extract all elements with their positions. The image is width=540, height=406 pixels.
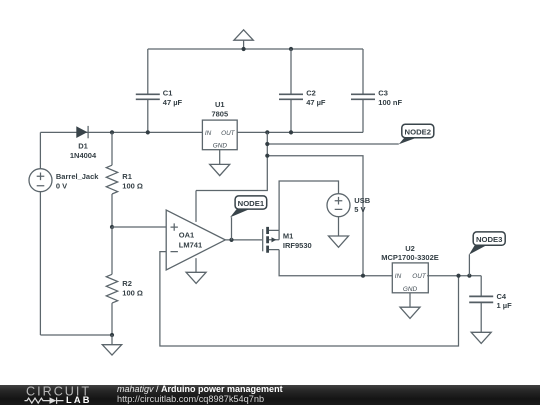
resistor R1 [106, 165, 117, 194]
power flag (up triangle) on top rail [234, 30, 253, 49]
svg-text:M1: M1 [283, 232, 293, 241]
op-amp OA1 [166, 210, 225, 270]
svg-text:100 nF: 100 nF [378, 98, 402, 107]
svg-text:R1: R1 [122, 172, 132, 181]
junction: R1 / op-amp + input [110, 225, 114, 229]
ground (bottom left) [102, 335, 121, 355]
capacitor C2 [279, 94, 303, 99]
junction: out rail / C2 [289, 130, 293, 134]
svg-text:NODE3: NODE3 [476, 235, 503, 244]
svg-text:47 µF: 47 µF [163, 98, 183, 107]
wire: USB negative lead [338, 217, 340, 236]
junction: top rail / C2 [289, 47, 293, 51]
svg-text:1 µF: 1 µF [497, 301, 513, 310]
junction: input rail / R1 [110, 130, 114, 134]
wire: NODE2 branch [267, 143, 399, 145]
wire: input rail from barrel jack through D1 to U1 IN [40, 131, 202, 133]
node NODE3 flag [469, 232, 505, 255]
wire: 5V branch to U2 [267, 156, 363, 276]
ground (op-amp V-) [186, 272, 206, 283]
svg-text:100 Ω: 100 Ω [122, 182, 143, 191]
svg-text:1N4004: 1N4004 [70, 151, 97, 160]
CircuitLab logo [0, 385, 110, 406]
svg-text:IN: IN [395, 273, 402, 280]
svg-text:47 µF: 47 µF [306, 98, 326, 107]
node NODE2 flag [399, 124, 434, 144]
voltage regulator U2 box [392, 263, 428, 293]
svg-text:D1: D1 [78, 142, 88, 151]
svg-text:OUT: OUT [221, 130, 236, 137]
resistor R2 [106, 274, 117, 303]
wire: C2 leads [290, 49, 292, 132]
wire: R2 bottom lead [111, 303, 113, 335]
svg-text:100 Ω: 100 Ω [122, 289, 143, 298]
svg-text:C4: C4 [497, 292, 507, 301]
junction: output / NODE1 [229, 238, 233, 242]
wire: vcc drop to op-amp supply [196, 132, 267, 190]
junction: out rail / vcc drop [265, 130, 269, 134]
svg-text:C3: C3 [378, 89, 388, 98]
svg-text:OA1: OA1 [179, 231, 194, 240]
wire: U1 output rail [237, 131, 363, 133]
transistor M1 (PMOS) [263, 227, 279, 253]
svg-text:0 V: 0 V [56, 182, 67, 191]
svg-text:NODE2: NODE2 [405, 127, 432, 136]
svg-text:MCP1700-3302E: MCP1700-3302E [381, 253, 439, 262]
footer url text [117, 394, 264, 404]
diode D1 [76, 126, 88, 138]
junction: vcc drop / NODE2 branch [265, 142, 269, 146]
wire: U2 ground stem [409, 293, 411, 307]
wire: U2 output rail [427, 275, 481, 277]
wire: bottom left return [40, 334, 112, 336]
wire: NODE1 drop [231, 217, 233, 240]
svg-text:IN: IN [205, 130, 212, 137]
svg-text:USB: USB [354, 196, 370, 205]
junction: U2 out / NODE3 [467, 274, 471, 278]
svg-text:GND: GND [403, 286, 418, 293]
wire: M1 source up to USB [279, 181, 338, 230]
voltage source Barrel_Jack [29, 169, 52, 192]
wire: C3 leads [362, 49, 364, 132]
svg-text:NODE1: NODE1 [238, 199, 265, 208]
svg-text:U1: U1 [215, 100, 225, 109]
wire: R1 top lead [111, 132, 113, 165]
ground (U1) [210, 164, 230, 175]
wire: top rail [148, 48, 363, 50]
wire: C1 leads [147, 49, 149, 132]
ground (USB) [329, 236, 349, 247]
svg-text:R2: R2 [122, 279, 132, 288]
ground (C4) [471, 332, 491, 343]
node NODE1 flag [230, 196, 267, 218]
wire: op-amp output to M1 gate [225, 239, 262, 241]
capacitor C1 [136, 94, 160, 99]
svg-text:5 V: 5 V [354, 205, 365, 214]
wire: op-amp V+ stem [195, 191, 197, 222]
wire: R1 bottom lead [111, 194, 113, 227]
svg-text:7805: 7805 [211, 110, 228, 119]
ground (U2) [400, 307, 420, 318]
svg-text:U2: U2 [405, 244, 415, 253]
voltage source USB [327, 194, 350, 217]
svg-text:LM741: LM741 [179, 241, 202, 250]
junction: vcc drop / 5V branch [265, 154, 269, 158]
junction: U2 out / feedback [456, 274, 460, 278]
wire: barrel jack positive lead [39, 132, 41, 168]
wire: R2 top lead [111, 227, 113, 274]
wire: op-amp non-inverting input [112, 226, 166, 228]
svg-text:GND: GND [213, 143, 228, 150]
footer title text [117, 384, 283, 394]
wire: op-amp V- stem [195, 258, 197, 272]
wire: barrel jack negative lead down left side [39, 192, 41, 335]
junction: U2 IN rail / 5V branch [361, 274, 365, 278]
footer bar [0, 385, 540, 405]
svg-text:C2: C2 [306, 89, 316, 98]
junction: bottom left / ground [110, 333, 114, 337]
junction: input rail / C1 [146, 130, 150, 134]
svg-text:OUT: OUT [412, 273, 427, 280]
wire: U1 ground stem [219, 150, 221, 165]
junction: top rail / flag [242, 47, 246, 51]
voltage regulator U1 box [202, 120, 237, 150]
capacitor C4 [469, 296, 493, 302]
wire: C4 leads [480, 276, 482, 333]
svg-text:LAB: LAB [66, 395, 92, 405]
wire: M1 drain down to U2 IN rail [279, 250, 392, 276]
capacitor C3 [351, 94, 375, 99]
wire: NODE3 drop [468, 254, 470, 275]
wire: op-amp inverting input feedback [160, 252, 459, 346]
svg-text:IRF9530: IRF9530 [283, 241, 312, 250]
svg-text:Barrel_Jack: Barrel_Jack [56, 172, 99, 181]
svg-text:C1: C1 [163, 89, 173, 98]
